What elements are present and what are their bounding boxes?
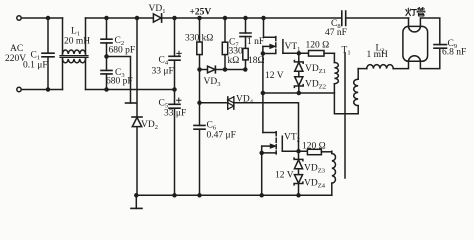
svg-text:12 V: 12 V	[265, 71, 284, 81]
resistor 18 ohm	[243, 37, 248, 71]
transformer T1 winding W1	[334, 53, 358, 114]
wire VT2 source to bus	[261, 153, 263, 195]
AC input terminal top	[17, 16, 21, 20]
wire trigger line with diac	[200, 102, 228, 104]
diode VD1	[153, 14, 161, 22]
inductor L1 common-mode choke	[60, 18, 88, 90]
capacitor C6	[194, 103, 205, 197]
svg-text:kΩ: kΩ	[228, 56, 240, 66]
svg-text:330: 330	[229, 47, 244, 57]
svg-text:330: 330	[185, 34, 200, 44]
zener VDZ2	[294, 77, 303, 95]
ground (filter midpoint)	[126, 102, 137, 104]
wire VT1 source bus	[263, 92, 335, 94]
svg-text:kΩ: kΩ	[202, 34, 214, 44]
diode VD2	[132, 117, 142, 127]
capacitor C7	[240, 17, 251, 37]
inductor L2	[358, 61, 408, 68]
svg-text:120 Ω: 120 Ω	[306, 41, 330, 51]
wire half-bridge midpoint VT1 source to VT2 drain	[262, 54, 264, 133]
svg-text:AC: AC	[10, 44, 23, 54]
MOSFET VT2	[260, 132, 307, 155]
diac VD4	[228, 97, 234, 109]
transformer T1 winding W2 primary	[354, 69, 359, 106]
svg-text:0.1 μF: 0.1 μF	[23, 61, 48, 71]
transformer T1 core	[344, 53, 346, 178]
svg-text:680 pF: 680 pF	[106, 77, 133, 87]
capacitor C3	[101, 55, 112, 91]
MOSFET VT1	[261, 17, 308, 56]
svg-text:33 μF: 33 μF	[164, 109, 186, 119]
capacitor C9	[420, 45, 446, 69]
svg-text:1 mH: 1 mH	[367, 50, 389, 60]
svg-text:12 V: 12 V	[275, 171, 294, 181]
svg-text:20 mH: 20 mH	[64, 37, 90, 47]
wire mid rail from L1 to C4/C5 junction	[86, 89, 175, 91]
zener VDZ1	[294, 53, 303, 76]
wire top rail from terminal to L1	[21, 17, 62, 19]
svg-text:6.8 nF: 6.8 nF	[442, 47, 466, 57]
resistor 120 ohm (VT2 gate)	[297, 149, 332, 154]
lamp tube	[403, 18, 440, 61]
resistor 330k first	[197, 17, 202, 70]
svg-text:120 Ω: 120 Ω	[302, 142, 326, 152]
wire timing node vertical	[199, 70, 201, 103]
zener VDZ4	[294, 175, 303, 197]
zener VDZ3	[294, 151, 303, 174]
diode VD3	[200, 66, 246, 73]
svg-text:680 pF: 680 pF	[109, 46, 136, 56]
wire bottom bus	[136, 194, 331, 196]
capacitor C8	[342, 11, 346, 26]
svg-text:1 nF: 1 nF	[247, 37, 264, 47]
capacitor C5 electrolytic	[169, 90, 181, 197]
wire C2/C3 midpoint to ground stub	[107, 57, 131, 104]
AC input terminal bottom	[17, 87, 21, 91]
svg-text:33 μF: 33 μF	[152, 67, 174, 77]
resistor 330k second	[222, 17, 227, 72]
svg-text:+25V: +25V	[190, 8, 212, 18]
wire top rail from L1 to VD1 anode	[86, 17, 154, 19]
transformer T1 winding W3	[332, 151, 336, 195]
capacitor C2	[101, 17, 112, 57]
wire top rail from VD1 cathode to C8	[162, 17, 342, 19]
ground (DC bus)	[131, 194, 142, 209]
wire VD2 branch (top rail to bottom bus)	[136, 18, 138, 117]
resistor 120 ohm (VT1 gate)	[297, 51, 334, 57]
wire top rail from C8 to lamp pin	[346, 17, 409, 19]
wire mid rail from terminal to L1	[21, 89, 62, 91]
capacitor C1	[42, 17, 54, 92]
svg-text:47 nF: 47 nF	[325, 28, 347, 38]
svg-text:0.47 μF: 0.47 μF	[207, 131, 236, 141]
capacitor C4 electrolytic	[169, 17, 181, 92]
svg-text:18Ω: 18Ω	[248, 56, 265, 66]
label lamp (Chinese: deng guan) drawn as strokes	[406, 7, 425, 16]
